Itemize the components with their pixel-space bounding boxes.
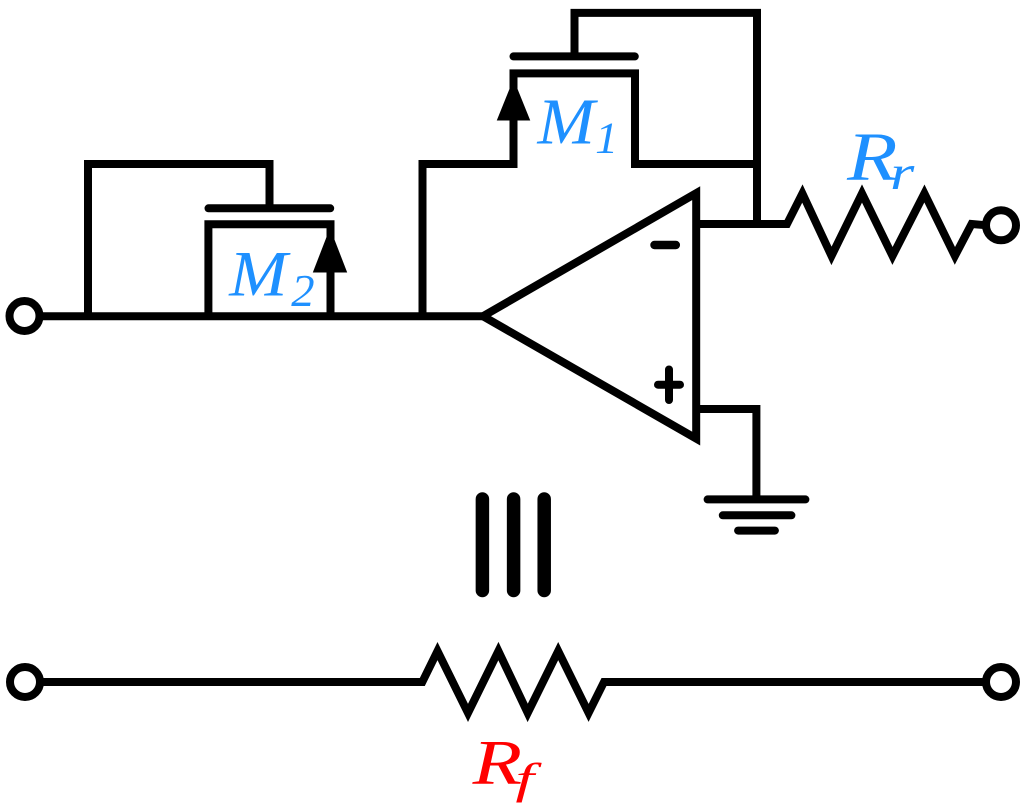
svg-text:1: 1 xyxy=(595,113,618,162)
svg-text:M: M xyxy=(228,238,290,310)
svg-text:2: 2 xyxy=(291,266,314,316)
svg-text:M: M xyxy=(536,85,597,158)
svg-text:r: r xyxy=(890,146,914,200)
svg-text:f: f xyxy=(516,755,543,803)
svg-text:R: R xyxy=(471,727,522,798)
